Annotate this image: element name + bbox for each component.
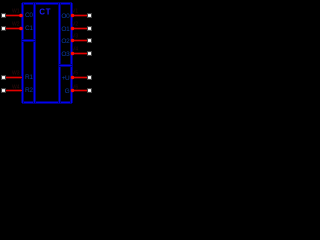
junction dot left row1	[19, 14, 23, 18]
pad P2 left	[1, 26, 6, 31]
svg-text:W3: W3	[12, 71, 20, 77]
IC U1 box bottom edge	[22, 101, 72, 104]
pad P8 right	[87, 51, 92, 56]
svg-text:R2: R2	[25, 87, 33, 94]
junction dot right G	[71, 89, 74, 92]
left rung wire	[22, 39, 35, 42]
junction dot right O1	[71, 27, 74, 30]
right rung wire	[59, 64, 72, 67]
background	[0, 0, 93, 105]
svg-text:C1: C1	[25, 25, 33, 32]
wire O1 right	[72, 27, 87, 30]
wire R1 left	[6, 76, 22, 79]
svg-text:V2: V2	[72, 22, 78, 28]
wire C0 left	[6, 14, 22, 17]
wire G right	[72, 89, 87, 92]
svg-text:W2: W2	[12, 22, 20, 28]
pad P6 right	[87, 26, 92, 31]
svg-text:C0: C0	[25, 12, 33, 19]
svg-text:G: G	[65, 88, 70, 95]
pad P10 right	[87, 88, 92, 93]
wire O3 right	[72, 52, 87, 55]
pad P4 left	[1, 88, 6, 93]
wire O2 right	[72, 39, 87, 42]
IC U1 box right edge (v3)	[58, 3, 61, 103]
IC U1 box left edge (v2)	[33, 3, 36, 103]
svg-text:O1: O1	[61, 26, 70, 33]
svg-text:CT: CT	[39, 8, 51, 17]
svg-text:V5: V5	[72, 71, 78, 77]
wire O0 right	[72, 14, 87, 17]
wire +U right	[72, 76, 87, 79]
junction dot right O0	[71, 14, 74, 17]
junction dot right O3	[71, 52, 74, 55]
svg-text:V4: V4	[72, 47, 78, 53]
junction dot right O2	[71, 39, 74, 42]
svg-text:O2: O2	[61, 38, 70, 45]
svg-text:O0: O0	[61, 13, 70, 20]
svg-text:V6: V6	[72, 85, 78, 91]
svg-text:R1: R1	[25, 74, 33, 81]
pad P5 right	[87, 13, 92, 18]
junction dot left row2	[19, 27, 23, 31]
svg-text:W4: W4	[12, 85, 20, 91]
svg-text:V3: V3	[72, 34, 78, 40]
pad P3 left	[1, 75, 6, 80]
wire bus left vertical (v1)	[21, 3, 24, 103]
wire R2 left	[6, 89, 22, 92]
pad P9 right	[87, 75, 92, 80]
svg-text:O3: O3	[61, 51, 70, 58]
IC U1 box top edge	[22, 2, 72, 5]
svg-text:W1: W1	[12, 9, 20, 15]
pad P7 right	[87, 38, 92, 43]
wire bus right vertical (v4)	[70, 3, 73, 103]
junction dot right +U	[71, 76, 74, 79]
svg-text:V1: V1	[72, 9, 78, 15]
pad P1 left	[1, 13, 6, 18]
svg-text:+U: +U	[62, 75, 70, 82]
wire C1 left	[6, 27, 22, 30]
